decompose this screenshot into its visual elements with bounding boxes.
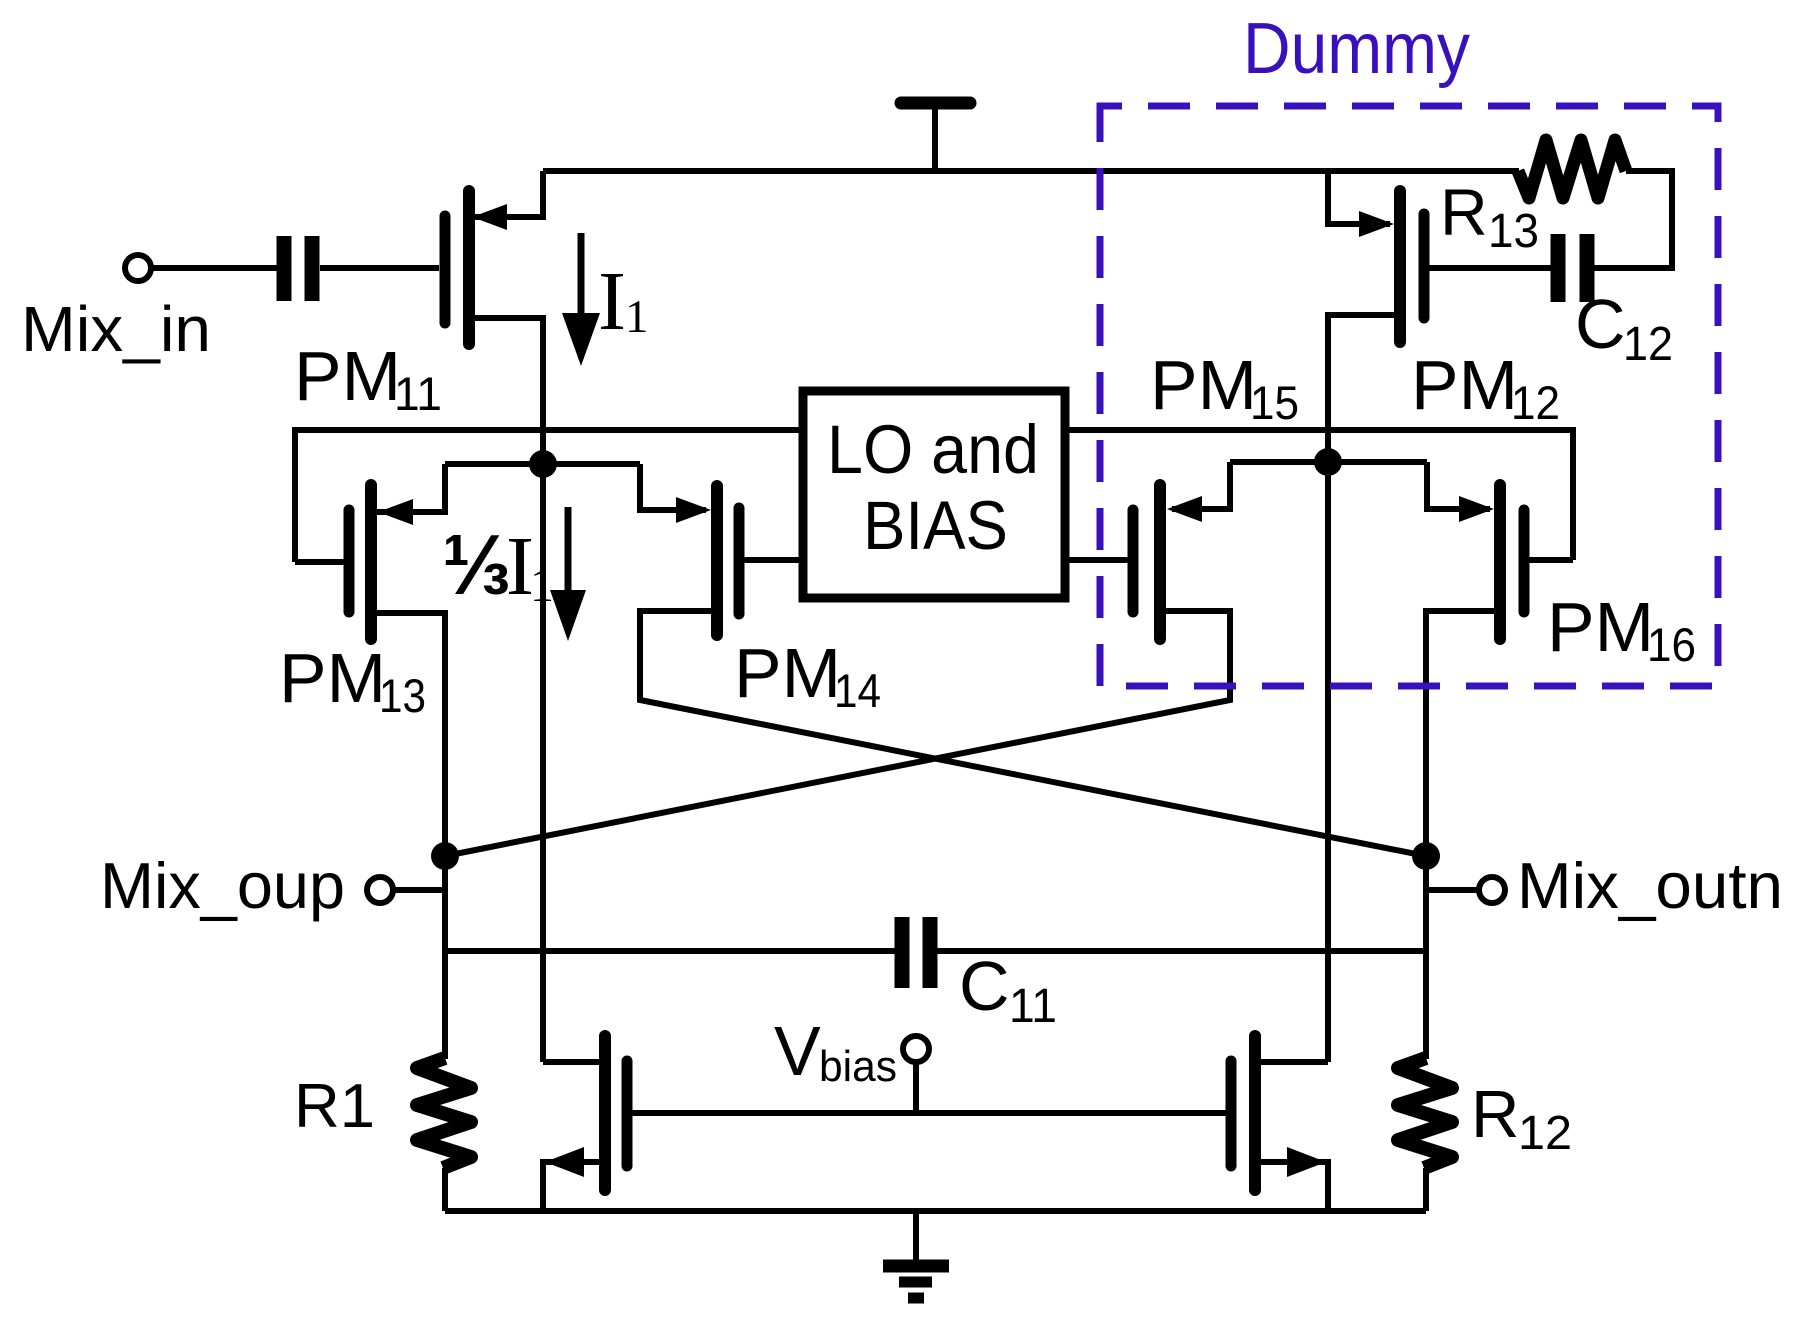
node Mix_outn junction: [1412, 842, 1440, 870]
wire Mix_oup terminal stub: [394, 887, 445, 893]
svg-text:LO and: LO and: [827, 411, 1039, 488]
wire Mix_outn node down to R12: [1423, 856, 1429, 1059]
node I1 split junction: [529, 450, 557, 478]
svg-text:V: V: [774, 1012, 821, 1090]
current arrow I1: [578, 233, 585, 316]
capacitor C12 plate B: [1580, 234, 1595, 302]
svg-text:PM: PM: [734, 634, 841, 712]
wire NM12 drain lead: [1255, 1059, 1328, 1065]
transistor PM12 gate bar: [1419, 214, 1430, 318]
resistor R1: [417, 1058, 471, 1168]
wire VDD symbol stem: [932, 105, 938, 171]
wire PM16 gate lead: [1524, 557, 1573, 563]
svg-text:1: 1: [530, 559, 554, 612]
wire right source node row: [1230, 459, 1427, 465]
wire PM13 source lead: [371, 464, 445, 512]
wire bottom ground rail: [445, 1208, 1426, 1214]
svg-text:12: 12: [1518, 1107, 1572, 1160]
node right split junction: [1314, 448, 1342, 476]
terminal Vbias: [903, 1036, 929, 1062]
wire C11 row right segment: [937, 948, 1426, 954]
transistor NM11 gate bar: [622, 1061, 633, 1166]
wire C11 row left segment: [445, 948, 895, 954]
transistor PM11 channel bar: [463, 191, 475, 344]
wire PM11 source to VDD rail: [469, 171, 543, 217]
wire PM13 drain down to Mix_oup node: [371, 613, 445, 856]
transistor NM12 source arrow: [1287, 1147, 1326, 1177]
wire NM11 drain lead: [543, 1059, 605, 1065]
box LO and BIAS: [803, 391, 1065, 598]
svg-text:PM: PM: [1150, 346, 1257, 424]
svg-text:C: C: [1575, 285, 1626, 363]
svg-text:R1: R1: [294, 1072, 375, 1141]
wire left source node row: [445, 461, 640, 467]
svg-text:13: 13: [379, 669, 426, 722]
wire PM16 source lead: [1427, 462, 1490, 509]
wire PM12 gate to C12: [1424, 265, 1551, 271]
transistor PM13 gate bar: [344, 510, 355, 612]
svg-text:bias: bias: [819, 1042, 897, 1091]
transistor PM16 source arrow: [1459, 496, 1494, 522]
svg-text:11: 11: [1009, 980, 1057, 1033]
svg-text:I: I: [598, 255, 626, 348]
wire NM12 source to ground rail: [1255, 1162, 1328, 1211]
wire PM16 drain down to Mix_outn node: [1426, 611, 1500, 856]
transistor PM12 channel bar: [1394, 191, 1406, 342]
svg-text:BIAS: BIAS: [863, 487, 1008, 564]
transistor NM12 gate bar: [1226, 1061, 1237, 1166]
wire PM15 gate lead from LO box: [1065, 557, 1133, 563]
wire PM12 drain down to right node: [1328, 315, 1400, 462]
transistor PM14 source arrow: [676, 497, 711, 523]
svg-text:1: 1: [625, 291, 649, 343]
resistor R12: [1398, 1058, 1452, 1168]
wire Mix_in to input cap: [152, 265, 277, 271]
svg-text:R: R: [1440, 175, 1488, 249]
svg-text:C: C: [959, 947, 1010, 1025]
resistor R13: [1518, 140, 1626, 198]
transistor PM12 source arrow: [1359, 211, 1394, 237]
svg-text:PM: PM: [1547, 588, 1654, 666]
svg-text:Mix_oup: Mix_oup: [100, 849, 345, 922]
wire PM14 gate lead to LO box: [739, 557, 803, 563]
wire ground symbol stem: [913, 1211, 919, 1262]
wire Mix_oup node down to R1: [442, 856, 448, 1059]
capacitor input coupling (Mix_in) plate B: [305, 236, 320, 301]
svg-text:15: 15: [1250, 376, 1299, 429]
dummy dashed box: [1100, 106, 1718, 686]
svg-text:11: 11: [394, 367, 442, 420]
svg-text:12: 12: [1623, 318, 1673, 371]
capacitor C12 plate A: [1551, 234, 1566, 302]
wire PM12 source from VDD rail: [1328, 171, 1390, 224]
wire PM13 gate lead: [295, 559, 349, 565]
wire NMOS gate row: [627, 1110, 1231, 1116]
wire Vbias stem: [913, 1063, 919, 1113]
wire input cap to PM11 gate: [320, 265, 439, 271]
transistor NM12 channel bar: [1249, 1036, 1261, 1190]
wire LO box right row to PM16 gate: [1065, 430, 1573, 560]
wire PM15 drain with cross-couple diagonal to Mix_oup: [445, 611, 1230, 856]
svg-text:16: 16: [1647, 618, 1696, 671]
wire VDD top rail: [543, 168, 1519, 174]
terminal Mix_oup: [367, 877, 393, 903]
transistor PM15 gate bar: [1128, 510, 1139, 612]
transistor PM14 gate bar: [734, 508, 745, 614]
transistor PM11 gate bar: [440, 216, 451, 323]
svg-text:14: 14: [834, 664, 881, 717]
wire PM14 drain with cross-couple diagonal to Mix_outn: [640, 611, 1426, 856]
svg-text:13: 13: [1488, 205, 1539, 258]
capacitor C11 plate A: [895, 917, 910, 988]
wire PM15 source lead: [1172, 462, 1230, 509]
wire NM11 source to ground rail: [543, 1162, 605, 1211]
power VDD symbol bar: [901, 97, 970, 110]
current arrow 1/3 I1: [565, 507, 572, 592]
transistor PM15 channel bar: [1154, 485, 1166, 639]
transistor PM11 source arrow: [472, 204, 507, 230]
terminal Mix_in: [125, 255, 151, 281]
svg-text:PM: PM: [279, 639, 386, 717]
capacitor C11 plate B: [923, 917, 938, 988]
transistor PM13 source arrow: [378, 499, 413, 525]
capacitor input coupling (Mix_in) plate A: [277, 236, 292, 301]
transistor NM11 source arrow: [545, 1147, 584, 1177]
wire PM13 gate loop to LO box row: [295, 430, 803, 562]
transistor PM16 channel bar: [1494, 485, 1506, 639]
svg-text:R: R: [1471, 1077, 1519, 1152]
svg-text:12: 12: [1511, 376, 1560, 429]
transistor PM15 source arrow: [1167, 496, 1202, 522]
terminal Mix_outn: [1479, 877, 1505, 903]
node Mix_oup junction: [431, 842, 459, 870]
transistor NM11 channel bar: [599, 1036, 611, 1190]
wire C12 right plate to R13 right end: [1593, 171, 1672, 268]
wire Mix_outn terminal stub: [1426, 887, 1478, 893]
wire R12 bottom to ground rail: [1423, 1168, 1429, 1211]
wire PM11 drain down (I1 path): [469, 318, 543, 1062]
svg-text:⅓: ⅓: [442, 518, 511, 613]
transistor PM14 channel bar: [711, 486, 723, 635]
wire PM12 drain continues down to NM12: [1325, 462, 1331, 1062]
transistor PM16 gate bar: [1519, 510, 1530, 612]
svg-text:PM: PM: [1411, 346, 1518, 424]
svg-text:Mix_outn: Mix_outn: [1517, 849, 1783, 922]
ground symbol: [883, 1260, 949, 1273]
transistor PM13 channel bar: [365, 485, 377, 639]
svg-text:PM: PM: [294, 337, 401, 415]
wire PM14 source lead: [640, 464, 706, 510]
svg-text:Dummy: Dummy: [1243, 9, 1470, 89]
svg-text:Mix_in: Mix_in: [21, 293, 211, 365]
wire R1 bottom to ground rail: [442, 1168, 448, 1211]
